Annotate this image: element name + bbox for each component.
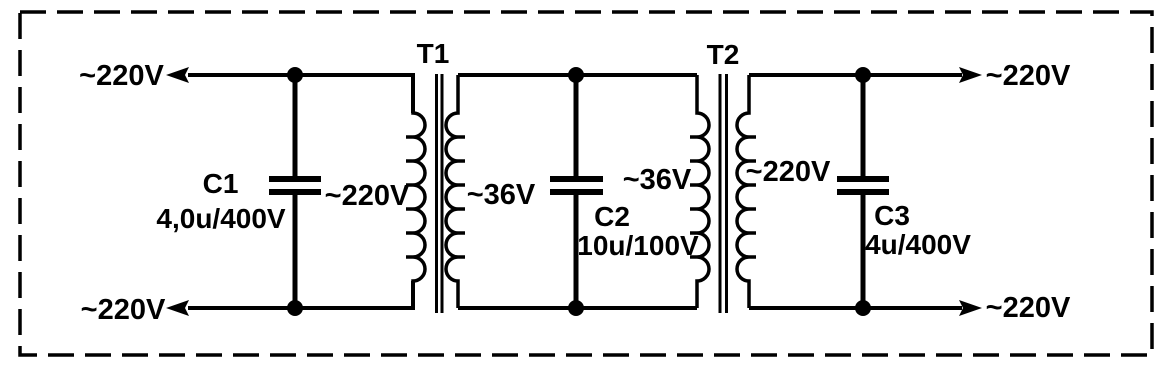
svg-text:~220V: ~220V bbox=[986, 60, 1071, 92]
svg-text:~220V: ~220V bbox=[746, 156, 831, 188]
svg-text:~220V: ~220V bbox=[986, 292, 1071, 324]
svg-text:C2: C2 bbox=[594, 201, 630, 232]
svg-text:10u/100V: 10u/100V bbox=[577, 230, 699, 261]
svg-text:~220V: ~220V bbox=[81, 294, 166, 326]
svg-text:~220V: ~220V bbox=[79, 60, 164, 92]
svg-text:~36V: ~36V bbox=[467, 179, 536, 211]
svg-text:4,0u/400V: 4,0u/400V bbox=[156, 203, 286, 234]
svg-text:C3: C3 bbox=[874, 200, 910, 231]
svg-text:~36V: ~36V bbox=[623, 164, 692, 196]
svg-text:T2: T2 bbox=[707, 39, 740, 70]
svg-text:T1: T1 bbox=[417, 38, 450, 69]
svg-text:~220V: ~220V bbox=[325, 180, 410, 212]
svg-text:4u/400V: 4u/400V bbox=[865, 229, 971, 260]
svg-text:C1: C1 bbox=[203, 168, 239, 199]
